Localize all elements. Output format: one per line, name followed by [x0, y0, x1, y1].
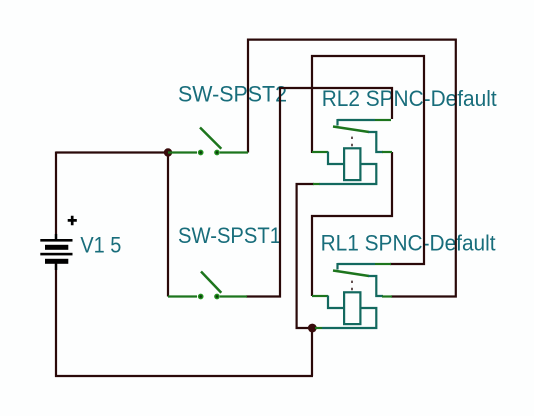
- svg-text:RL1 SPNC-Default: RL1 SPNC-Default: [321, 231, 496, 256]
- relay RL2 contact pivot drop: [336, 119, 338, 126]
- svg-text:SW-SPST2: SW-SPST2: [178, 82, 287, 107]
- switch SW-SPST1 wire left: [168, 295, 197, 297]
- wire RL2 contact output down, across y=216, down to RL1 coil left: [312, 152, 392, 296]
- battery V1 pins: [55, 234, 57, 270]
- relay RL2 contact blade: [333, 127, 369, 133]
- relay RL2 coil right step: [319, 164, 376, 184]
- wire node A down to SW-SPST1: [167, 153, 169, 297]
- relay RL2 blade output green: [382, 151, 392, 153]
- wire battery+ vertical: [55, 152, 57, 240]
- relay RL1 blade output step: [369, 276, 384, 296]
- wire RL2 coil left up to inner top run and down to RL1 contact pivot: [312, 56, 424, 264]
- relay RL1 coil left step: [328, 296, 343, 309]
- switch SW-SPST1 blade: [201, 272, 221, 293]
- relay RL2 coil bottom green: [313, 183, 320, 185]
- relay RL1 coil right step: [322, 308, 376, 328]
- relay RL1 contact pivot drop: [336, 263, 338, 270]
- relay RL2 coil left wire green: [312, 151, 328, 153]
- relay RL1 coil box: [344, 292, 360, 324]
- relay RL1 armature dashes: [351, 281, 353, 291]
- wire SW-SPST2 output up, outer top run, right side down to RL1 contact row: [248, 40, 456, 297]
- switch SW-SPST2 wire right: [220, 151, 248, 153]
- relay RL2 blade output step: [369, 132, 384, 152]
- node B junction dot: [308, 324, 317, 333]
- battery V1 plate 1 long: [40, 239, 72, 242]
- node A junction dot: [164, 148, 172, 156]
- relay RL2 contact top line green: [375, 119, 391, 121]
- switch SW-SPST1 post circle 2: [215, 294, 219, 298]
- relay RL2 coil box: [344, 148, 360, 180]
- battery V1 plate 3 long: [40, 253, 72, 256]
- switch SW-SPST1 post circle 1: [199, 294, 203, 298]
- battery V1 plate 2 thick: [45, 245, 68, 250]
- battery V1 plate 4 thick: [45, 259, 68, 264]
- wire bottom ground run: [55, 375, 313, 377]
- svg-text:RL2 SPNC-Default: RL2 SPNC-Default: [322, 86, 497, 111]
- relay RL1 contact top line teal: [338, 263, 376, 265]
- relay RL2 contact top line teal: [338, 119, 376, 121]
- wire SW-SPST1 output right, up, across y=88, down to RL2 contact pivot: [246, 88, 392, 297]
- svg-text:SW-SPST1: SW-SPST1: [178, 223, 281, 248]
- relay RL1 contact blade: [333, 271, 369, 277]
- svg-text:V1 5: V1 5: [80, 232, 121, 257]
- switch SW-SPST1 wire right: [220, 295, 247, 297]
- switch SW-SPST2 post circle 2: [215, 150, 219, 154]
- relay RL2 armature dashes: [351, 137, 353, 147]
- relay RL1 coil bottom green to node B: [315, 327, 322, 329]
- relay RL1 coil left wire green: [312, 295, 328, 297]
- relay RL1 blade output green: [382, 295, 392, 297]
- wire RL2 coil bottom left leg down to node B: [297, 184, 314, 328]
- switch SW-SPST2 post circle 1: [199, 150, 203, 154]
- relay RL2 coil left step: [328, 152, 343, 165]
- switch SW-SPST2 blade: [200, 128, 221, 149]
- relay RL1 contact top line green: [375, 263, 391, 265]
- wire node B down to ground run: [311, 328, 313, 376]
- wire battery+ top horizontal to node A: [56, 151, 166, 153]
- wire battery- vertical: [55, 264, 57, 378]
- switch SW-SPST2 wire left: [168, 151, 197, 153]
- battery plus sign: [68, 216, 77, 226]
